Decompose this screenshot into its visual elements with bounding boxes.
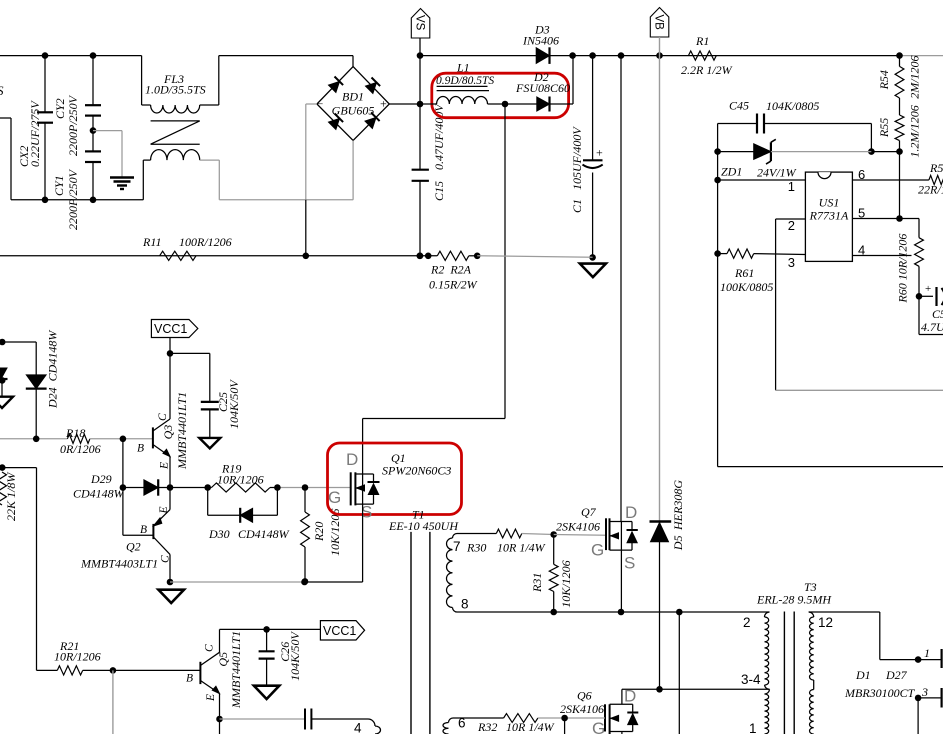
svg-text:10R/1206: 10R/1206 xyxy=(54,650,101,664)
svg-text:R20: R20 xyxy=(312,522,326,542)
svg-text:CY2: CY2 xyxy=(53,98,67,119)
svg-text:EE-10 450UH: EE-10 450UH xyxy=(388,519,459,533)
svg-text:24V/1W: 24V/1W xyxy=(757,166,797,180)
svg-text:MMBT4401LT1: MMBT4401LT1 xyxy=(229,631,243,709)
svg-text:C15: C15 xyxy=(432,181,446,201)
svg-text:1.2M/1206: 1.2M/1206 xyxy=(908,105,922,157)
svg-text:Q2: Q2 xyxy=(126,540,141,554)
svg-text:104K/0805: 104K/0805 xyxy=(766,99,819,113)
svg-text:2200P/250V: 2200P/250V xyxy=(66,168,80,230)
svg-text:D1: D1 xyxy=(855,668,871,682)
svg-text:2SK4106: 2SK4106 xyxy=(556,520,600,534)
svg-text:0R/1206: 0R/1206 xyxy=(60,442,101,456)
svg-text:C: C xyxy=(204,644,216,652)
svg-text:VS: VS xyxy=(414,15,426,31)
svg-text:3: 3 xyxy=(788,255,795,270)
svg-text:B: B xyxy=(186,673,193,685)
svg-text:D27: D27 xyxy=(885,668,908,682)
svg-text:1: 1 xyxy=(788,179,795,194)
svg-text:SPW20N60C3: SPW20N60C3 xyxy=(382,464,451,478)
svg-text:104K/50V: 104K/50V xyxy=(227,379,241,429)
svg-text:3: 3 xyxy=(921,685,928,699)
svg-text:10R/1206: 10R/1206 xyxy=(217,473,264,487)
svg-text:5: 5 xyxy=(858,206,865,221)
svg-text:R61: R61 xyxy=(734,266,754,280)
svg-text:R32: R32 xyxy=(477,720,497,734)
svg-text:R60 10R/1206: R60 10R/1206 xyxy=(896,234,910,304)
svg-text:E: E xyxy=(159,462,171,470)
svg-text:10K/1206: 10K/1206 xyxy=(559,560,573,607)
svg-text:VCC1: VCC1 xyxy=(154,322,187,336)
svg-text:R31: R31 xyxy=(530,573,544,593)
svg-text:10R 1/4W: 10R 1/4W xyxy=(497,541,546,555)
svg-text:US1: US1 xyxy=(819,196,840,210)
svg-text:G: G xyxy=(591,541,604,560)
svg-text:22K 1/8W: 22K 1/8W xyxy=(4,472,18,521)
svg-text:C5: C5 xyxy=(932,307,943,321)
svg-text:2200P/250V: 2200P/250V xyxy=(66,94,80,156)
svg-text:12: 12 xyxy=(818,615,833,630)
svg-text:3-4: 3-4 xyxy=(741,672,761,687)
svg-text:2M/1206: 2M/1206 xyxy=(908,55,922,98)
svg-text:G: G xyxy=(328,488,341,507)
svg-text:0.22UF/275V: 0.22UF/275V xyxy=(28,100,42,167)
svg-text:Q6: Q6 xyxy=(577,689,592,703)
svg-text:R30: R30 xyxy=(466,541,486,555)
svg-text:D24 CD4148W: D24 CD4148W xyxy=(46,330,60,409)
svg-text:2SK4106: 2SK4106 xyxy=(560,702,604,716)
svg-text:2: 2 xyxy=(743,615,751,630)
svg-text:2.2R 1/2W: 2.2R 1/2W xyxy=(681,63,733,77)
svg-text:D29: D29 xyxy=(90,472,112,486)
svg-text:Q5: Q5 xyxy=(216,652,230,667)
svg-text:0.9D/80.5TS: 0.9D/80.5TS xyxy=(436,75,494,87)
svg-text:R2 R2A: R2 R2A xyxy=(430,263,472,277)
svg-text:VCC1: VCC1 xyxy=(323,624,356,638)
svg-text:1.0D/35.5TS: 1.0D/35.5TS xyxy=(145,83,206,97)
svg-text:CY1: CY1 xyxy=(52,175,66,196)
svg-text:+: + xyxy=(380,97,387,111)
svg-text:C1: C1 xyxy=(570,199,584,213)
svg-text:−: − xyxy=(317,99,323,111)
svg-text:6: 6 xyxy=(858,167,865,182)
svg-text:D: D xyxy=(625,503,637,522)
svg-text:22R/1: 22R/1 xyxy=(918,183,943,197)
svg-text:ERL-28 9.5MH: ERL-28 9.5MH xyxy=(756,593,832,607)
svg-text:10R 1/4W: 10R 1/4W xyxy=(506,720,555,734)
svg-text:100R/1206: 100R/1206 xyxy=(179,235,232,249)
svg-text:MMBT4401LT1: MMBT4401LT1 xyxy=(175,392,189,470)
svg-text:VB: VB xyxy=(653,15,665,31)
svg-text:D5: D5 xyxy=(671,535,685,551)
svg-text:Q7: Q7 xyxy=(581,505,597,519)
svg-text:100K/0805: 100K/0805 xyxy=(720,280,773,294)
svg-text:HER308G: HER308G xyxy=(671,480,685,531)
svg-text:FSU08C60: FSU08C60 xyxy=(515,81,570,95)
svg-text:C: C xyxy=(157,413,169,421)
svg-text:C45: C45 xyxy=(729,99,749,113)
svg-text:S: S xyxy=(624,554,635,573)
svg-text:104K/50V: 104K/50V xyxy=(288,631,302,681)
svg-text:1: 1 xyxy=(924,646,930,660)
svg-text:E: E xyxy=(205,694,217,702)
svg-text:D: D xyxy=(346,450,358,469)
svg-text:G: G xyxy=(592,719,605,734)
svg-text:L1: L1 xyxy=(456,61,470,75)
svg-text:B: B xyxy=(140,524,147,536)
svg-text:R1: R1 xyxy=(695,34,709,48)
svg-text:+: + xyxy=(596,146,603,160)
svg-text:IN5406: IN5406 xyxy=(522,34,559,48)
svg-text:R7731A: R7731A xyxy=(809,209,849,223)
svg-text:S: S xyxy=(0,83,4,98)
svg-text:0.15R/2W: 0.15R/2W xyxy=(429,278,478,292)
svg-text:R5: R5 xyxy=(929,161,943,175)
svg-text:E: E xyxy=(158,506,170,514)
svg-text:4: 4 xyxy=(354,721,362,734)
svg-text:MBR30100CT: MBR30100CT xyxy=(844,686,916,700)
svg-text:105UF/400V: 105UF/400V xyxy=(570,126,584,190)
svg-text:R54: R54 xyxy=(877,70,891,90)
svg-text:4: 4 xyxy=(858,243,865,258)
svg-text:+: + xyxy=(925,283,931,295)
svg-text:Q3: Q3 xyxy=(161,425,175,440)
svg-text:R18: R18 xyxy=(65,426,85,440)
svg-text:GBU605: GBU605 xyxy=(332,104,375,118)
svg-text:B: B xyxy=(137,443,144,455)
svg-text:D30: D30 xyxy=(208,527,230,541)
svg-text:BD1: BD1 xyxy=(342,90,364,104)
svg-text:2: 2 xyxy=(788,218,795,233)
svg-text:R11: R11 xyxy=(142,235,161,249)
svg-text:CD4148W: CD4148W xyxy=(73,487,125,501)
svg-text:ZD1: ZD1 xyxy=(721,165,742,179)
svg-text:R55: R55 xyxy=(877,118,891,138)
svg-text:8: 8 xyxy=(461,597,469,612)
svg-text:1: 1 xyxy=(749,721,757,734)
svg-text:7: 7 xyxy=(453,539,461,554)
svg-text:MMBT4403LT1: MMBT4403LT1 xyxy=(80,557,158,571)
svg-text:4.7U: 4.7U xyxy=(921,320,943,334)
svg-text:CD4148W: CD4148W xyxy=(238,527,290,541)
